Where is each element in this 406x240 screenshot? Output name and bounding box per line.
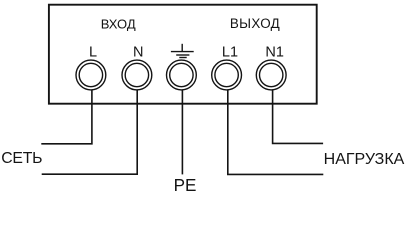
terminal N: [122, 60, 152, 90]
wire N to mains: [42, 89, 138, 174]
wire N1 to load: [273, 90, 324, 144]
svg-text:PE: PE: [174, 176, 197, 195]
svg-text:НАГРУЗКА: НАГРУЗКА: [324, 151, 405, 168]
terminal PE: [167, 60, 197, 90]
svg-text:N1: N1: [265, 45, 284, 61]
svg-text:СЕТЬ: СЕТЬ: [1, 150, 42, 167]
terminal N1: [256, 60, 286, 90]
terminal block outline: [49, 5, 317, 104]
wire PE to earth: [181, 90, 183, 175]
wire L1 to load: [228, 90, 323, 175]
svg-text:L1: L1: [222, 45, 238, 61]
svg-text:N: N: [133, 45, 143, 61]
svg-text:ВХОД: ВХОД: [101, 16, 136, 31]
terminal L: [76, 60, 106, 90]
svg-text:L: L: [89, 45, 97, 61]
terminal L1: [212, 60, 242, 90]
earth ground symbol: [171, 44, 194, 58]
wire L to mains: [41, 90, 92, 144]
svg-text:ВЫХОД: ВЫХОД: [230, 16, 280, 31]
